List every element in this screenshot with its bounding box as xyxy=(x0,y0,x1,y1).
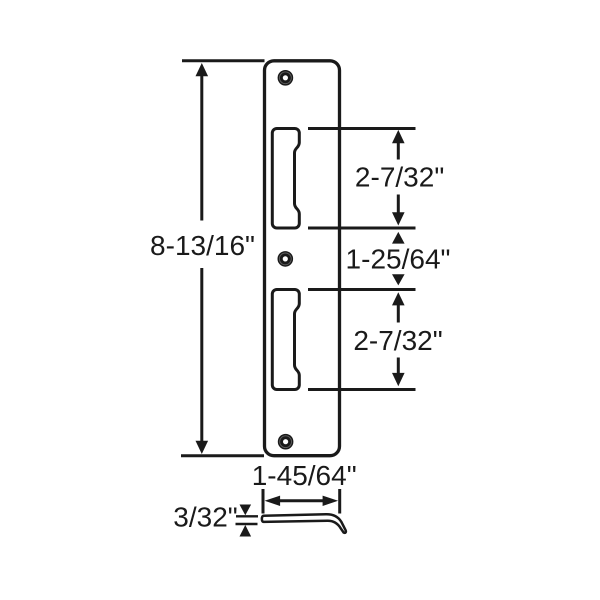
dimension 2-7/32 lower: up arrow xyxy=(392,292,405,305)
dimension 8-13/16 down arrow xyxy=(196,441,209,454)
dimension 1-45/64 left tick xyxy=(262,489,265,514)
extension line slot1 top xyxy=(308,127,416,130)
screw hole bottom xyxy=(278,434,294,450)
screw hole top xyxy=(278,70,294,86)
dimension 2-7/32 lower: shaft bottom xyxy=(397,358,400,377)
strike plate outline xyxy=(265,61,340,456)
dimension 3/32 down arrow xyxy=(240,505,252,516)
dimension 2-7/32 upper: down arrow xyxy=(392,212,405,225)
dimension 2-7/32 upper: shaft bottom xyxy=(397,195,400,214)
dimension 1-25/64: up arrow xyxy=(392,232,405,244)
dimension 8-13/16 up arrow xyxy=(196,63,209,76)
extension line slot2 top xyxy=(308,288,416,291)
dimension 2-7/32 upper: shaft top xyxy=(397,142,400,160)
dimension 8-13/16 top tick xyxy=(182,59,265,62)
extension line slot2 bottom xyxy=(308,388,416,391)
svg-text:1-45/64": 1-45/64" xyxy=(252,460,357,491)
dimension 8-13/16 shaft lower xyxy=(200,268,203,442)
dimension 1-45/64 right tick xyxy=(338,489,341,514)
svg-text:3/32": 3/32" xyxy=(173,502,237,533)
svg-text:2-7/32": 2-7/32" xyxy=(353,325,442,356)
dimension 2-7/32 upper: up arrow xyxy=(392,130,405,143)
dimension 3/32 up arrow xyxy=(240,525,252,537)
dimension 1-45/64 left arrow xyxy=(265,496,281,506)
extension line slot1 bottom xyxy=(308,227,416,230)
dimension 1-25/64: down arrow xyxy=(392,274,405,285)
latch slot 2 (lower) xyxy=(272,290,299,390)
screw hole middle xyxy=(278,251,294,267)
dimension 2-7/32 lower: shaft top xyxy=(397,303,400,323)
svg-text:2-7/32": 2-7/32" xyxy=(355,162,444,193)
dimension 2-7/32 lower: down arrow xyxy=(392,373,405,386)
latch slot 1 (upper) xyxy=(272,129,299,229)
dimension 3/32 lower tick xyxy=(236,523,258,525)
dimension 1-45/64 shaft xyxy=(270,499,333,502)
dimension 1-45/64 right arrow xyxy=(323,496,339,506)
svg-text:1-25/64": 1-25/64" xyxy=(346,244,451,275)
dimension 3/32 upper tick xyxy=(236,515,258,517)
svg-text:8-13/16": 8-13/16" xyxy=(150,230,255,261)
dimension 8-13/16 shaft upper xyxy=(200,75,203,221)
dimension 8-13/16 bottom tick xyxy=(181,454,264,457)
plate side profile (bent lip) xyxy=(262,514,346,533)
